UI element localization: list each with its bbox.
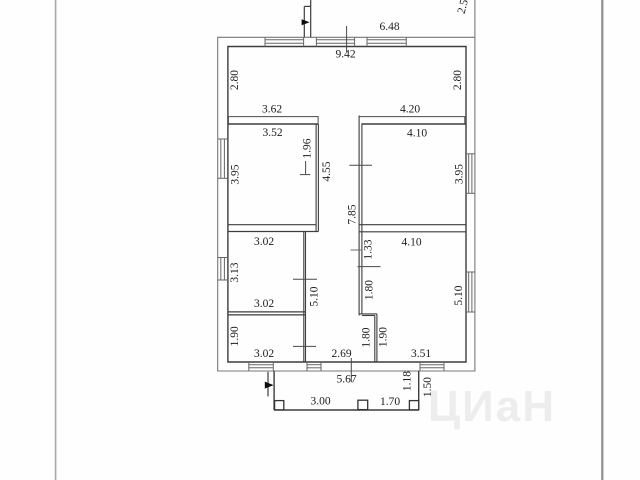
svg-text:2.80: 2.80	[452, 70, 464, 90]
svg-text:1.80: 1.80	[361, 327, 373, 347]
wall room top right	[362, 123, 467, 125]
eaves extension line top-right	[474, 0, 476, 37]
dimension tick 9.42	[346, 26, 348, 52]
entrance bottom line	[267, 372, 269, 397]
svg-text:4.10: 4.10	[407, 128, 427, 140]
svg-text:3.62: 3.62	[262, 103, 282, 115]
window bottom-3	[420, 362, 444, 371]
dimension tick 1.33 top	[351, 249, 363, 251]
window top-3	[367, 37, 406, 46]
svg-text:3.02: 3.02	[254, 298, 274, 310]
dimension line 4.20	[359, 117, 466, 124]
svg-text:3.52: 3.52	[262, 127, 282, 139]
svg-text:ЦИаН: ЦИаН	[428, 382, 556, 431]
svg-text:2.69: 2.69	[331, 348, 351, 360]
svg-text:3.51: 3.51	[411, 348, 431, 360]
svg-text:7.85: 7.85	[347, 204, 359, 224]
wall central vertical	[359, 116, 362, 316]
porch bottom wall	[274, 409, 419, 411]
svg-text:1.70: 1.70	[380, 396, 400, 408]
window right-2	[466, 272, 475, 312]
dimension tick 5.10/1.80	[293, 345, 316, 347]
window top-1	[265, 37, 304, 46]
window right-1	[466, 154, 475, 194]
svg-text:2.80: 2.80	[229, 70, 241, 90]
svg-text:3.02: 3.02	[254, 348, 274, 360]
svg-text:1.33: 1.33	[363, 239, 375, 259]
svg-text:9.42: 9.42	[335, 49, 355, 61]
window left-1	[218, 139, 228, 178]
svg-text:1.50: 1.50	[422, 377, 434, 397]
svg-text:4.20: 4.20	[400, 104, 420, 116]
porch pier left	[275, 401, 284, 410]
door top	[366, 37, 368, 46]
svg-text:1.18: 1.18	[401, 371, 413, 391]
svg-text:3.95: 3.95	[454, 164, 466, 184]
wall horizontal mid band right	[359, 225, 466, 232]
svg-text:5.67: 5.67	[336, 374, 356, 386]
dimension tick 4.55/7.85	[349, 164, 372, 166]
svg-text:3.00: 3.00	[310, 396, 330, 408]
porch pier right	[409, 401, 418, 410]
entrance top lines	[304, 0, 310, 37]
svg-text:6.48: 6.48	[379, 21, 399, 33]
svg-text:4.55: 4.55	[321, 161, 333, 181]
wall room top left	[228, 123, 319, 125]
wall left-room right side	[316, 124, 318, 232]
svg-text:3.95: 3.95	[229, 164, 241, 184]
svg-text:1.80: 1.80	[363, 280, 375, 300]
wall jog horizontal	[359, 314, 377, 316]
svg-text:4.10: 4.10	[401, 237, 421, 249]
window bottom-1	[249, 362, 273, 371]
svg-text:1.90: 1.90	[378, 327, 390, 347]
wall horizontal lower left	[228, 312, 306, 315]
porch right wall	[418, 371, 420, 410]
dimension line 5.67 vertical	[350, 358, 352, 382]
window top-2	[316, 37, 354, 46]
svg-text:1.90: 1.90	[229, 326, 241, 346]
window left-2	[218, 258, 228, 281]
dimension line 1.96	[300, 161, 310, 175]
left gray page border line	[55, 0, 57, 480]
porch pier middle	[358, 400, 368, 409]
wall corridor left vertical	[304, 232, 306, 363]
exterior wall inner outline	[228, 47, 466, 363]
porch left wall	[273, 371, 275, 410]
dimension tick 1.33 bottom	[358, 266, 381, 268]
svg-text:3.13: 3.13	[229, 262, 241, 282]
exterior wall outer outline	[218, 37, 475, 371]
svg-text:1.96: 1.96	[302, 138, 314, 158]
window bottom-2	[307, 362, 321, 371]
wall lower right vertical	[375, 314, 377, 362]
entrance bottom arrow	[265, 382, 274, 389]
entrance top arrow	[302, 19, 310, 25]
dimension tick 3.13/1.90	[293, 278, 317, 280]
wall horizontal mid band left	[228, 225, 319, 232]
dimension line 3.62	[228, 117, 319, 124]
svg-text:5.10: 5.10	[308, 286, 320, 306]
svg-text:3.02: 3.02	[254, 236, 274, 248]
svg-text:5.10: 5.10	[453, 285, 465, 305]
right gray page border line	[601, 0, 603, 480]
